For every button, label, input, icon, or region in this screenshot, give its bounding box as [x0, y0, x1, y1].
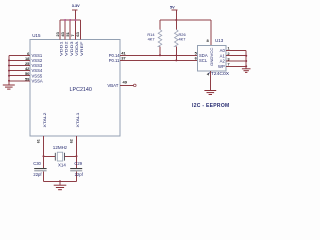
svg-text:A1: A1 — [220, 53, 226, 58]
wire XTAL1 drop — [76, 136, 78, 156]
wire VDD drop pin 7 — [74, 20, 76, 40]
wire VSS pin 42 — [9, 70, 30, 72]
wire EEPROM GND pin 4 — [209, 71, 211, 90]
svg-text:VDDA: VDDA — [75, 40, 79, 56]
svg-text:AT24C0X: AT24C0X — [208, 71, 230, 76]
svg-text:61: 61 — [36, 139, 40, 143]
wire VSS pin 25 — [9, 65, 30, 67]
svg-text:22pf: 22pf — [33, 172, 42, 177]
wire crystal ground rail — [44, 180, 77, 182]
chip U15 body LPC2140 — [30, 40, 120, 137]
wire VBAT stub pin 49 — [120, 84, 133, 86]
svg-text:22pf: 22pf — [75, 172, 84, 177]
svg-text:C30: C30 — [33, 161, 41, 166]
svg-text:A0: A0 — [220, 48, 226, 53]
wire A0 pin 1 — [226, 49, 246, 51]
svg-text:4K7: 4K7 — [148, 37, 155, 42]
svg-text:59: 59 — [25, 76, 30, 81]
wire VDD drop pin 43 — [64, 20, 66, 40]
node crystal right junction — [76, 155, 78, 157]
svg-text:VREF: VREF — [80, 42, 84, 57]
svg-text:VBAT: VBAT — [107, 83, 118, 88]
svg-text:VDD1: VDD1 — [60, 41, 64, 56]
svg-text:49: 49 — [123, 79, 128, 84]
power 5V — [170, 6, 177, 20]
wire XTAL2 drop — [43, 136, 45, 156]
svg-text:62: 62 — [69, 139, 73, 143]
node R26-SCL junction — [175, 59, 177, 61]
wire WP pin 7 — [226, 65, 246, 67]
wire A-bus vertical — [245, 50, 247, 68]
svg-text:5V: 5V — [170, 6, 175, 10]
wire VDD drop pin 23 — [59, 20, 61, 40]
capacitor C30 — [33, 156, 46, 181]
wire P0.14 SDA net pin 41 — [120, 54, 198, 56]
chip U13 EEPROM body — [198, 46, 226, 72]
wire ground stem — [59, 181, 61, 185]
node bus junctions — [8, 59, 10, 61]
node rail junctions — [64, 19, 66, 21]
node A-bus junctions — [245, 55, 247, 57]
svg-text:VDD2: VDD2 — [65, 41, 69, 56]
wire A2 pin 3 — [226, 60, 246, 62]
crystal X14 — [55, 152, 66, 167]
svg-text:GNDVCC: GNDVCC — [210, 47, 214, 66]
power 3.3V — [72, 4, 80, 20]
wire crystal left lead — [44, 155, 56, 157]
node ground rail junction — [59, 180, 61, 182]
svg-text:I2C - EEPROM: I2C - EEPROM — [192, 103, 230, 109]
wire 3.3V rail — [60, 19, 80, 21]
wire EEPROM VCC drop pin 8 — [210, 20, 212, 46]
capacitor C29 — [70, 156, 83, 181]
resistor R26 — [175, 20, 186, 60]
svg-text:XTAL1: XTAL1 — [76, 112, 80, 127]
node crystal left junction — [43, 155, 45, 157]
svg-text:SCL: SCL — [199, 58, 208, 63]
wire P0.11 SCL net pin 37 — [120, 59, 198, 61]
wire VSS pin 6 — [9, 54, 30, 56]
wire VDD drop pin 63 — [79, 20, 81, 40]
svg-text:VSSA: VSSA — [32, 78, 43, 83]
node VBAT open circle — [134, 84, 137, 87]
svg-text:VDD3: VDD3 — [70, 41, 74, 56]
wire VSS bus vertical — [8, 55, 10, 85]
node R26 crossing SDA — [176, 55, 178, 57]
wire crystal right lead — [65, 155, 77, 157]
wire VSS pin 50 — [9, 75, 30, 77]
wire 5V rail — [160, 19, 211, 21]
ground left — [3, 85, 15, 89]
svg-text:12MHz: 12MHz — [53, 145, 67, 150]
ground crystal — [54, 185, 67, 190]
svg-text:4K7: 4K7 — [179, 37, 186, 42]
svg-text:LPC2140: LPC2140 — [70, 87, 92, 93]
svg-text:3.3V: 3.3V — [72, 4, 80, 8]
svg-text:XTAL2: XTAL2 — [43, 112, 47, 127]
svg-text:63: 63 — [75, 31, 80, 36]
svg-text:A2: A2 — [220, 59, 226, 64]
wire VDD drop pin 51 — [69, 20, 71, 40]
svg-text:P0.11: P0.11 — [109, 58, 120, 63]
wire VSS pin 59 — [9, 80, 30, 82]
node R14-SDA junction — [159, 54, 161, 56]
svg-text:37: 37 — [121, 56, 126, 61]
wire A1 pin 2 — [226, 55, 246, 57]
svg-text:U13: U13 — [215, 38, 224, 43]
wire VSS pin 18 — [9, 59, 30, 61]
svg-text:X14: X14 — [58, 163, 66, 168]
node 5V junction — [175, 19, 177, 21]
svg-text:WP: WP — [218, 64, 225, 69]
svg-text:C29: C29 — [74, 161, 82, 166]
ground right A-pins — [242, 69, 251, 73]
svg-text:U15: U15 — [32, 33, 41, 38]
ground EEPROM pin4 — [204, 91, 216, 95]
resistor R14 — [147, 20, 161, 55]
